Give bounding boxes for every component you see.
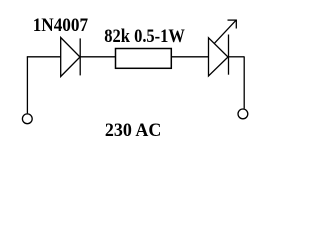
svg-text:1N4007: 1N4007 [33, 16, 88, 36]
svg-text:230 AC: 230 AC [105, 121, 161, 141]
svg-text:82k 0.5-1W: 82k 0.5-1W [104, 27, 185, 47]
